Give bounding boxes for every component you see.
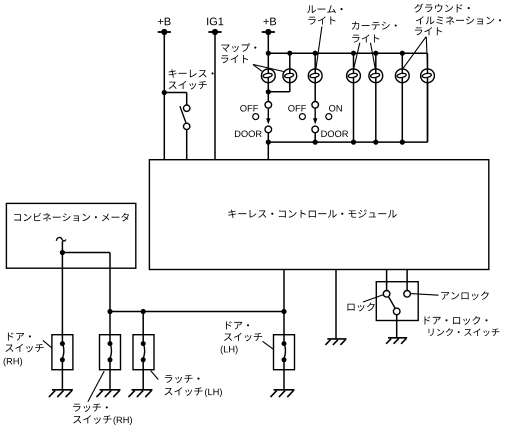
wire joining map lamps [268,91,290,93]
power terminal +B (right) [262,29,275,35]
label +B (left) [158,18,171,26]
label ground illumination line2 [416,16,501,25]
wire bus to latch switch RH [109,312,111,345]
leader door switch LH [263,341,274,349]
junction feed bus lamp 4 [351,51,356,56]
label room light line1 [307,5,342,13]
label door lock link switch line1 [424,316,487,325]
junction feed bus lamp 2 [287,51,292,56]
door switch LH contact [282,341,287,362]
combination meter [6,203,135,268]
label room light line2 [308,16,335,24]
wire IG1 to module [214,32,216,160]
label latch switch LH (LH) [205,388,222,397]
label IG1 [207,18,223,26]
wire bus to latch switch LH [142,312,144,345]
junction return bus [313,140,318,145]
lamp: map light 1 [261,69,275,83]
label OFF switch2 [288,105,306,112]
label DOOR switch1 [235,131,262,138]
label map light line1 [221,43,256,52]
wire module to door switch LH [283,270,285,345]
label ground illumination line3 [415,27,442,35]
label door switch RH line2 [5,344,43,353]
wire feed to lamp 2 [289,53,291,69]
label +B (right) [263,18,276,26]
label lock [347,303,374,312]
door switch LH box [274,335,295,370]
switch2 OFF contact [299,114,305,120]
junction feed bus lamp 3 [313,51,318,56]
junction return bus [351,140,356,145]
wire lamp 5 to return bus [375,83,377,142]
junction lower bus latch LH [141,309,146,314]
switch2 arrow [313,108,317,124]
junction lower bus door LH [281,309,286,314]
door switch RH box [52,335,73,370]
label latch switch RH (RH) [113,416,131,425]
wire switch1 to return bus [267,133,269,142]
leader map light to lamp2 [253,65,284,72]
wire feed to lamp 7 [427,53,429,69]
label combination meter [14,213,129,222]
label door switch LH line3 [221,346,238,355]
leader door switch RH [43,340,52,348]
lamp: ground illumination light 1 [395,69,409,83]
leader courtesy lamp2 [371,43,376,69]
latch switch LH box [133,335,154,370]
lock contact [383,291,390,298]
wire feed to lamp 6 [401,53,403,69]
label OFF switch1 [240,105,258,112]
wire meter stub [61,241,63,252]
keyless control module U1 [149,160,488,270]
wire room lamp down [314,83,316,102]
junction feed bus lamp 5 [373,51,378,56]
lamp: room light [308,69,322,83]
wire meter to door switch RH [61,253,63,345]
wire map lamp1 down [267,83,269,102]
label ON switch2 [329,105,342,112]
lamp return bus [268,141,427,143]
lower bus [110,311,284,313]
label keyless switch line2 [169,81,207,90]
switch2 common contact [312,102,319,109]
ground door switch RH [49,390,73,397]
switch1 DOOR contact [265,126,272,133]
label courtesy light line1 [352,21,397,29]
latch switch RH contact [108,341,113,362]
label latch switch RH line2 [73,415,111,424]
wire meter to lower bus [109,253,111,312]
wire lamp 6 to return bus [401,83,403,142]
wire door switch RH to ground [61,360,63,390]
lamp: map light 2 [283,69,297,83]
wire keyless switch to module [186,130,188,160]
switch2 ON contact [326,114,332,120]
return bus corner to lamp7 [427,83,429,142]
ground module [325,339,346,345]
wire keyless switch top [186,93,188,106]
wire meter internal horizontal [62,252,110,254]
label door switch RH line1 [8,333,31,341]
leader unlock [411,294,439,296]
wire return bus to module [267,142,269,160]
meter lamp coil symbol [56,237,66,241]
leader map light to lamp1 [253,65,262,72]
wire lamp 7 to return bus [427,83,429,142]
label courtesy light line2 [352,34,379,42]
wire +B left to module [163,32,165,160]
junction map lamps [266,89,271,94]
leader courtesy lamp1 [354,43,360,69]
junction inside meter [60,250,65,255]
switch1 arrow [266,108,270,124]
leader latch switch LH [151,371,159,380]
switch2 DOOR contact [312,126,319,133]
junction lower bus left [107,309,112,314]
unlock contact [404,291,411,298]
switch1 common contact [265,102,272,109]
lamp: ground illumination light 2 [421,69,435,83]
label DOOR switch2 [321,131,348,138]
ground door switch LH [270,390,294,397]
wire module to lock contact [386,270,388,291]
label map light line2 [221,55,248,63]
wire feed to lamp 5 [375,53,377,69]
label door switch LH line1 [226,321,249,329]
wire to keyless switch [164,92,186,94]
door switch RH contact [60,341,65,362]
wire lock switch to ground [396,315,398,338]
junction feed bus lamp 1 [266,51,271,56]
label door switch LH line2 [224,333,262,342]
wire lamp 4 to return bus [353,83,355,142]
label latch switch RH line1 [73,404,108,412]
wire latch switch LH to ground [142,360,144,390]
power terminal +B (left) [158,29,171,35]
wire map lamp2 down [289,83,291,92]
door lock link switch box [376,282,418,321]
junction return bus [266,140,271,145]
junction return bus [400,140,405,145]
junction feed bus lamp 6 [400,51,405,56]
leader lock [363,295,383,302]
lock switch common contact [393,308,400,315]
switch1 OFF contact [253,114,259,120]
lamp feed bus [268,52,427,54]
junction return bus [373,140,378,145]
leader ground illumination lamp2 [426,37,427,68]
ground latch switch LH [128,390,152,397]
wire door switch LH to ground [283,360,285,390]
wire module to ground [335,270,337,339]
ground door lock link switch [386,338,407,344]
label door switch RH line3 [4,358,22,367]
label keyless control module [228,210,396,218]
wire feed to lamp 4 [353,53,355,69]
wire feed to lamp 3 [314,53,316,69]
label keyless switch line1 [169,69,214,77]
label latch switch LH line1 [165,375,200,383]
junction +B / keyless switch [162,90,167,95]
label ground illumination line1 [414,3,469,12]
leader ground illumination lamp1 [403,37,426,68]
wire module to unlock contact [406,270,408,291]
latch switch LH contact [141,341,146,362]
leader room light [316,26,322,68]
label unlock [441,291,488,300]
ground latch switch RH [96,390,120,397]
lamp: courtesy light 2 [369,69,383,83]
leader latch switch RH [88,371,104,402]
keyless switch [180,105,190,130]
power terminal IG1 [208,29,221,35]
latch switch RH box [100,335,121,370]
lock switch arm [389,297,396,309]
wire switch2 to return bus [314,133,316,142]
label door lock link switch line2 [429,328,500,336]
label latch switch LH line2 [165,387,203,396]
wire +B right to lamp bus [267,32,269,53]
wire latch switch RH to ground [109,360,111,390]
lamp: courtesy light 1 [347,69,361,83]
wire feed to lamp 1 [267,53,269,69]
